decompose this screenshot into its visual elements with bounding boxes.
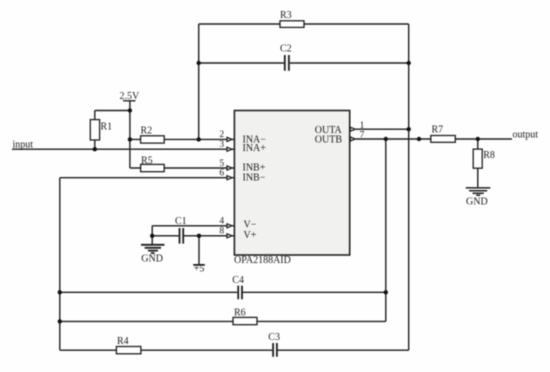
svg-text:R6: R6 — [234, 308, 246, 319]
svg-text:R8: R8 — [483, 150, 495, 161]
svg-text:input: input — [13, 140, 34, 151]
svg-text:R3: R3 — [280, 10, 292, 21]
svg-text:R1: R1 — [101, 121, 113, 132]
svg-text:OUTB: OUTB — [315, 135, 343, 146]
svg-text:output: output — [513, 129, 539, 140]
svg-text:6: 6 — [219, 169, 224, 179]
svg-text:V+: V+ — [244, 230, 257, 241]
svg-text:V−: V− — [244, 220, 257, 231]
svg-text:R5: R5 — [141, 155, 153, 166]
svg-text:2.5V: 2.5V — [120, 91, 141, 102]
svg-text:R7: R7 — [432, 125, 444, 136]
svg-text:R4: R4 — [117, 336, 129, 347]
svg-text:3: 3 — [219, 140, 224, 150]
svg-text:7: 7 — [360, 130, 365, 140]
svg-text:OPA2188AID: OPA2188AID — [234, 255, 291, 266]
svg-text:4: 4 — [219, 217, 224, 227]
svg-text:C4: C4 — [232, 275, 244, 286]
svg-text:INB−: INB− — [243, 172, 266, 183]
svg-text:C1: C1 — [175, 216, 187, 227]
svg-text:R2: R2 — [141, 125, 153, 136]
svg-text:C2: C2 — [280, 44, 292, 55]
svg-text:INA+: INA+ — [243, 143, 267, 154]
svg-text:GND: GND — [466, 196, 488, 207]
svg-text:C3: C3 — [268, 332, 280, 343]
svg-text:5: 5 — [219, 159, 224, 169]
svg-text:GND: GND — [141, 254, 163, 265]
svg-text:8: 8 — [219, 227, 224, 237]
svg-text:+5: +5 — [194, 264, 205, 275]
svg-text:2: 2 — [219, 130, 224, 140]
